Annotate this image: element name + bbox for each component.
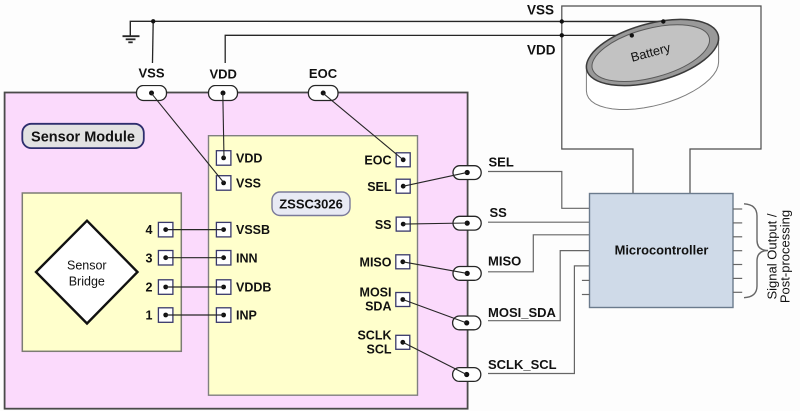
microcontroller left stub 1 [582, 279, 590, 281]
bridge pin square 4 [158, 222, 173, 237]
svg-text:SS: SS [375, 218, 392, 232]
microcontroller left stub 2 [582, 294, 590, 296]
label VSS (top pad) [135, 63, 167, 85]
svg-text:ZSSC3026: ZSSC3026 [279, 197, 343, 212]
wire bridge pin 4 to VSSB [166, 229, 224, 231]
chip box ZSSC3026 [209, 136, 418, 396]
pad SS (right) [453, 216, 481, 230]
wire MOSI pin to pad [403, 300, 467, 323]
sensor bridge box [22, 193, 181, 351]
wire MISO pin to pad [403, 262, 467, 274]
pin square VSSB [216, 222, 231, 237]
junction dot VDD at battery box [560, 33, 564, 37]
pad MISO (right) [453, 267, 481, 281]
svg-text:Sensor Module: Sensor Module [31, 130, 135, 146]
bridge pin square 3 [158, 251, 173, 266]
svg-text:VSSB: VSSB [236, 223, 270, 237]
pad EOC (top) [308, 86, 338, 101]
sensor bridge diamond [36, 221, 138, 324]
pin square VSS [216, 176, 231, 191]
junction dot battery VDD terminal [630, 33, 634, 37]
wire SEL pin to pad [403, 172, 467, 186]
pad VDD (top) [209, 86, 238, 101]
svg-text:VSS: VSS [527, 3, 554, 18]
svg-text:2: 2 [146, 281, 153, 295]
microcontroller U2 [590, 194, 734, 308]
wire VSS riser to pad [152, 21, 153, 90]
wire battery loop bottom-left drop [562, 35, 633, 193]
svg-text:SCL: SCL [367, 342, 392, 356]
pin square MISO [396, 255, 410, 269]
svg-text:VDD: VDD [527, 43, 556, 58]
pad MOSI_SDA (right) [453, 316, 481, 330]
ground [123, 36, 140, 42]
wire bridge pin 1 to INP [166, 314, 224, 316]
sensor module box [5, 93, 468, 409]
bridge pin square 1 [158, 308, 173, 323]
svg-text:MISO: MISO [488, 254, 521, 269]
sensor module label [22, 124, 144, 148]
svg-text:SDA: SDA [365, 300, 391, 314]
chip name label ZSSC3026 [272, 192, 350, 216]
wire bridge pin 3 to INN [166, 257, 224, 259]
junction dot VSS rail [151, 19, 155, 23]
svg-text:MOSI_SDA: MOSI_SDA [488, 305, 557, 320]
svg-text:Microcontroller: Microcontroller [615, 243, 709, 258]
svg-text:SCLK_SCL: SCLK_SCL [488, 357, 557, 372]
pin square SS [396, 217, 410, 231]
wire VSS pad to VSS pin [151, 93, 224, 183]
svg-text:EOC: EOC [364, 154, 391, 168]
svg-text:1: 1 [146, 309, 153, 323]
svg-text:SS: SS [490, 205, 508, 220]
svg-text:INN: INN [236, 251, 258, 265]
pad SEL (right) [453, 166, 481, 180]
svg-text:Bridge: Bridge [69, 275, 105, 289]
pad VSS (top) [137, 86, 167, 101]
brace [744, 204, 768, 298]
wire VSS rail (ground to battery box) [130, 21, 663, 36]
pin square MOSI/SDA [396, 293, 410, 307]
pin square SCLK/SCL [396, 335, 410, 349]
svg-text:VDD: VDD [236, 152, 262, 166]
svg-text:INP: INP [236, 309, 257, 323]
junction dot battery VSS terminal [661, 19, 665, 23]
pin square EOC [396, 153, 410, 167]
svg-text:VSS: VSS [138, 66, 164, 81]
wire SS pin to pad [403, 223, 467, 224]
svg-text:SCLK: SCLK [357, 328, 391, 342]
bridge pin square 2 [158, 280, 173, 295]
wire bridge pin 2 to VDDB [166, 286, 224, 288]
wire EOC pad to EOC pin [323, 93, 403, 160]
svg-text:EOC: EOC [309, 66, 338, 81]
pin square INN [216, 251, 231, 266]
svg-text:VDD: VDD [209, 67, 236, 82]
svg-text:SEL: SEL [367, 180, 392, 194]
svg-text:MOSI: MOSI [360, 286, 392, 300]
svg-text:4: 4 [146, 223, 153, 237]
svg-text:Post-processing: Post-processing [778, 210, 793, 303]
pin square VDD [216, 151, 231, 166]
svg-text:MISO: MISO [360, 256, 392, 270]
svg-text:SEL: SEL [489, 155, 514, 170]
pin square INP [216, 308, 231, 323]
pin square VDDB [216, 280, 231, 295]
wire SCLK pin to pad [403, 342, 467, 374]
svg-text:Sensor: Sensor [67, 259, 107, 273]
wire VDD pad to VDD pin [223, 93, 224, 158]
svg-text:VSS: VSS [236, 177, 261, 191]
label VDD (top pad) [208, 63, 240, 85]
battery B1 [579, 7, 725, 110]
wire VDD rail [225, 35, 632, 88]
microcontroller right ticks [733, 209, 742, 292]
wire battery loop left/top/right [562, 6, 761, 193]
pad SCLK_SCL (right) [453, 368, 481, 382]
svg-text:3: 3 [146, 251, 153, 265]
svg-text:VDDB: VDDB [236, 281, 271, 295]
pin square SEL [396, 179, 410, 193]
junction dot VSS at battery box [560, 19, 564, 23]
